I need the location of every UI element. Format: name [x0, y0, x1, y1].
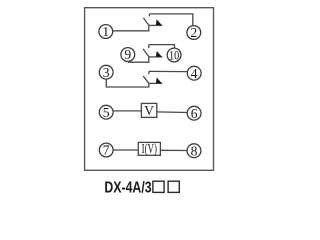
terminal 8 [187, 144, 201, 158]
contact K1 arrowhead [156, 19, 162, 25]
caption placeholder square 1 [153, 181, 164, 192]
svg-text:6: 6 [191, 106, 198, 121]
wire current coil to terminal 8 [160, 149, 187, 151]
current coil box I(V) [138, 142, 160, 155]
svg-text:10: 10 [169, 47, 179, 62]
contact K1 travel line [149, 24, 163, 26]
wire from terminal 9 to contact K2 pivot [128, 57, 148, 62]
svg-text:V: V [144, 103, 154, 118]
contact K1 fixed stub [148, 14, 150, 17]
wire from K2 fixed stub to terminal 10 [149, 45, 175, 48]
contact K2 moving blade [143, 49, 149, 57]
svg-text:7: 7 [103, 143, 110, 158]
wire from terminal 3 to contact K3 pivot [106, 79, 149, 87]
terminal 4 [187, 66, 201, 80]
terminal 6 [187, 106, 201, 120]
contact K2 travel line [149, 56, 163, 58]
contact K3 moving blade [143, 76, 149, 83]
contact K3 arrowhead [156, 78, 162, 84]
svg-text:5: 5 [103, 105, 110, 120]
terminal 2 [187, 26, 201, 40]
svg-text:I(V): I(V) [142, 141, 157, 156]
wire from terminal 1 to contact K1 pivot [113, 25, 149, 30]
svg-text:2: 2 [190, 25, 197, 40]
relay case outline [85, 8, 214, 171]
contact K3 fixed stub [148, 71, 150, 74]
wire terminal 7 to current coil [113, 149, 138, 151]
terminal 5 [99, 105, 113, 119]
contact K2 arrowhead [156, 51, 162, 57]
svg-text:9: 9 [124, 47, 131, 62]
contact K2 fixed stub [148, 45, 150, 49]
terminal 1 [99, 25, 113, 39]
svg-text:1: 1 [102, 24, 109, 39]
terminal 10 [167, 48, 181, 62]
svg-text:8: 8 [191, 143, 198, 158]
wire voltage coil to terminal 6 [157, 111, 187, 114]
wire from K3 fixed stub to terminal 4 [149, 70, 188, 72]
terminal 9 [121, 48, 135, 62]
svg-text:4: 4 [191, 66, 198, 81]
contact K3 travel line [149, 82, 163, 84]
wire from K1 fixed stub to terminal 2 [149, 14, 193, 26]
terminal 3 [99, 65, 113, 79]
svg-text:DX-4A/3: DX-4A/3 [104, 179, 151, 196]
voltage coil box V [141, 103, 156, 117]
svg-text:3: 3 [103, 65, 110, 80]
contact K1 moving blade [143, 18, 149, 26]
wire terminal 5 to voltage coil [113, 110, 141, 112]
terminal 7 [99, 143, 113, 157]
caption placeholder square 2 [168, 181, 179, 192]
